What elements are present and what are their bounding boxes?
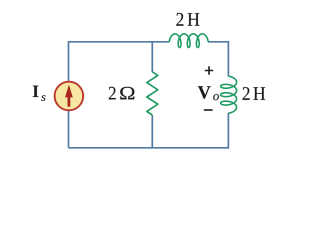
label 2 ohm <box>109 87 135 100</box>
inductor top 2H <box>169 34 208 48</box>
label Is <box>33 86 46 101</box>
plus sign <box>205 66 213 74</box>
label 2H top <box>176 13 199 26</box>
current source Is circle <box>55 82 84 111</box>
resistor R 2ohm <box>147 72 158 115</box>
label Vo <box>198 86 219 100</box>
wire bottom <box>69 147 229 149</box>
current source arrow <box>65 85 73 107</box>
wire top-left segment <box>69 41 170 43</box>
minus sign <box>204 109 213 111</box>
inductor right 2H <box>221 76 237 113</box>
wire right branch <box>227 41 229 149</box>
wire left branch <box>68 41 70 148</box>
wire middle branch <box>151 42 153 148</box>
label 2H right <box>243 87 266 100</box>
wire top-right segment <box>208 41 228 43</box>
